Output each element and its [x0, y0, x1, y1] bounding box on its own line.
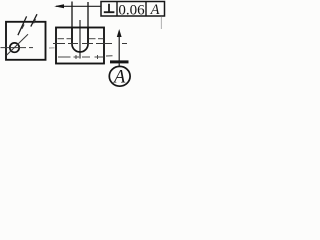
feature control frame outer box — [101, 2, 165, 17]
leader arrowhead — [54, 4, 64, 8]
slot left wall — [71, 28, 73, 45]
left view square outline — [6, 22, 46, 60]
slot bottom arc — [72, 44, 88, 52]
datum circle — [109, 66, 130, 86]
faint dash between views — [49, 47, 55, 49]
svg-text:0.06: 0.06 — [118, 2, 145, 18]
scan artifact line below frame right — [160, 17, 162, 30]
horizontal hole centerline — [53, 43, 127, 45]
leader line from frame — [56, 5, 101, 7]
perpendicularity symbol — [104, 4, 115, 12]
datum leader line — [118, 35, 120, 61]
hole diagonal centerline — [7, 34, 29, 55]
datum connector — [118, 63, 120, 67]
hidden hole line upper — [58, 38, 104, 40]
hatch dash 2 — [34, 19, 36, 23]
hatch dash 1 — [22, 25, 24, 29]
slot right wall — [87, 28, 89, 45]
hidden hole line lower — [58, 55, 113, 59]
hole circle — [10, 43, 19, 52]
svg-text:A: A — [112, 68, 126, 88]
datum leader arrowhead — [117, 29, 122, 37]
feature control frame divider 1 — [116, 2, 118, 17]
svg-text:A: A — [150, 2, 160, 18]
datum bar — [110, 60, 129, 63]
slot right extension line — [87, 2, 89, 28]
hatch line 2 — [31, 14, 37, 26]
feature control frame divider 2 — [145, 2, 147, 17]
part front view outline — [56, 28, 104, 64]
slot vertical centerline — [79, 20, 81, 59]
slot left extension line — [71, 2, 73, 28]
hatch line 1 — [18, 16, 27, 35]
hole horizontal centerline — [1, 47, 34, 49]
